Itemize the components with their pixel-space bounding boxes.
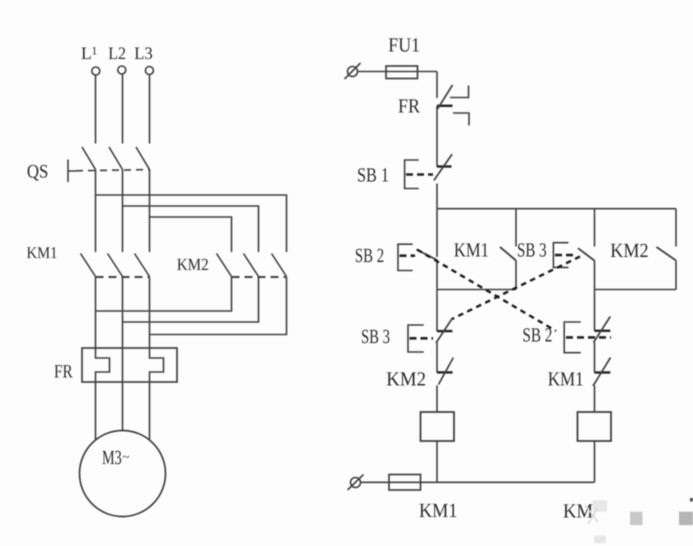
- svg-text:~: ~: [123, 449, 130, 464]
- svg-text:L2: L2: [108, 43, 126, 63]
- svg-text:KM1: KM1: [419, 500, 458, 522]
- svg-text:FR: FR: [398, 96, 421, 118]
- svg-text:SB 2: SB 2: [522, 325, 552, 347]
- svg-text:KM1: KM1: [454, 240, 489, 262]
- svg-text:SB 3: SB 3: [361, 326, 390, 348]
- svg-text:KM: KM: [563, 501, 593, 523]
- svg-text:SB 3: SB 3: [517, 240, 547, 262]
- svg-text:M3: M3: [102, 447, 122, 469]
- svg-text:QS: QS: [27, 162, 49, 183]
- svg-text:FR: FR: [54, 362, 73, 383]
- svg-text:KM2: KM2: [177, 255, 209, 274]
- svg-text:1: 1: [92, 46, 98, 58]
- svg-text:SB 1: SB 1: [357, 165, 389, 187]
- svg-text:KM2: KM2: [610, 240, 648, 262]
- svg-text:L: L: [81, 43, 92, 63]
- svg-text:KM2: KM2: [386, 369, 426, 391]
- svg-text:FU1: FU1: [388, 35, 420, 57]
- svg-text:L3: L3: [134, 43, 153, 63]
- svg-text:SB 2: SB 2: [355, 245, 384, 267]
- svg-text:KM1: KM1: [27, 243, 58, 262]
- svg-text:KM1: KM1: [548, 369, 584, 391]
